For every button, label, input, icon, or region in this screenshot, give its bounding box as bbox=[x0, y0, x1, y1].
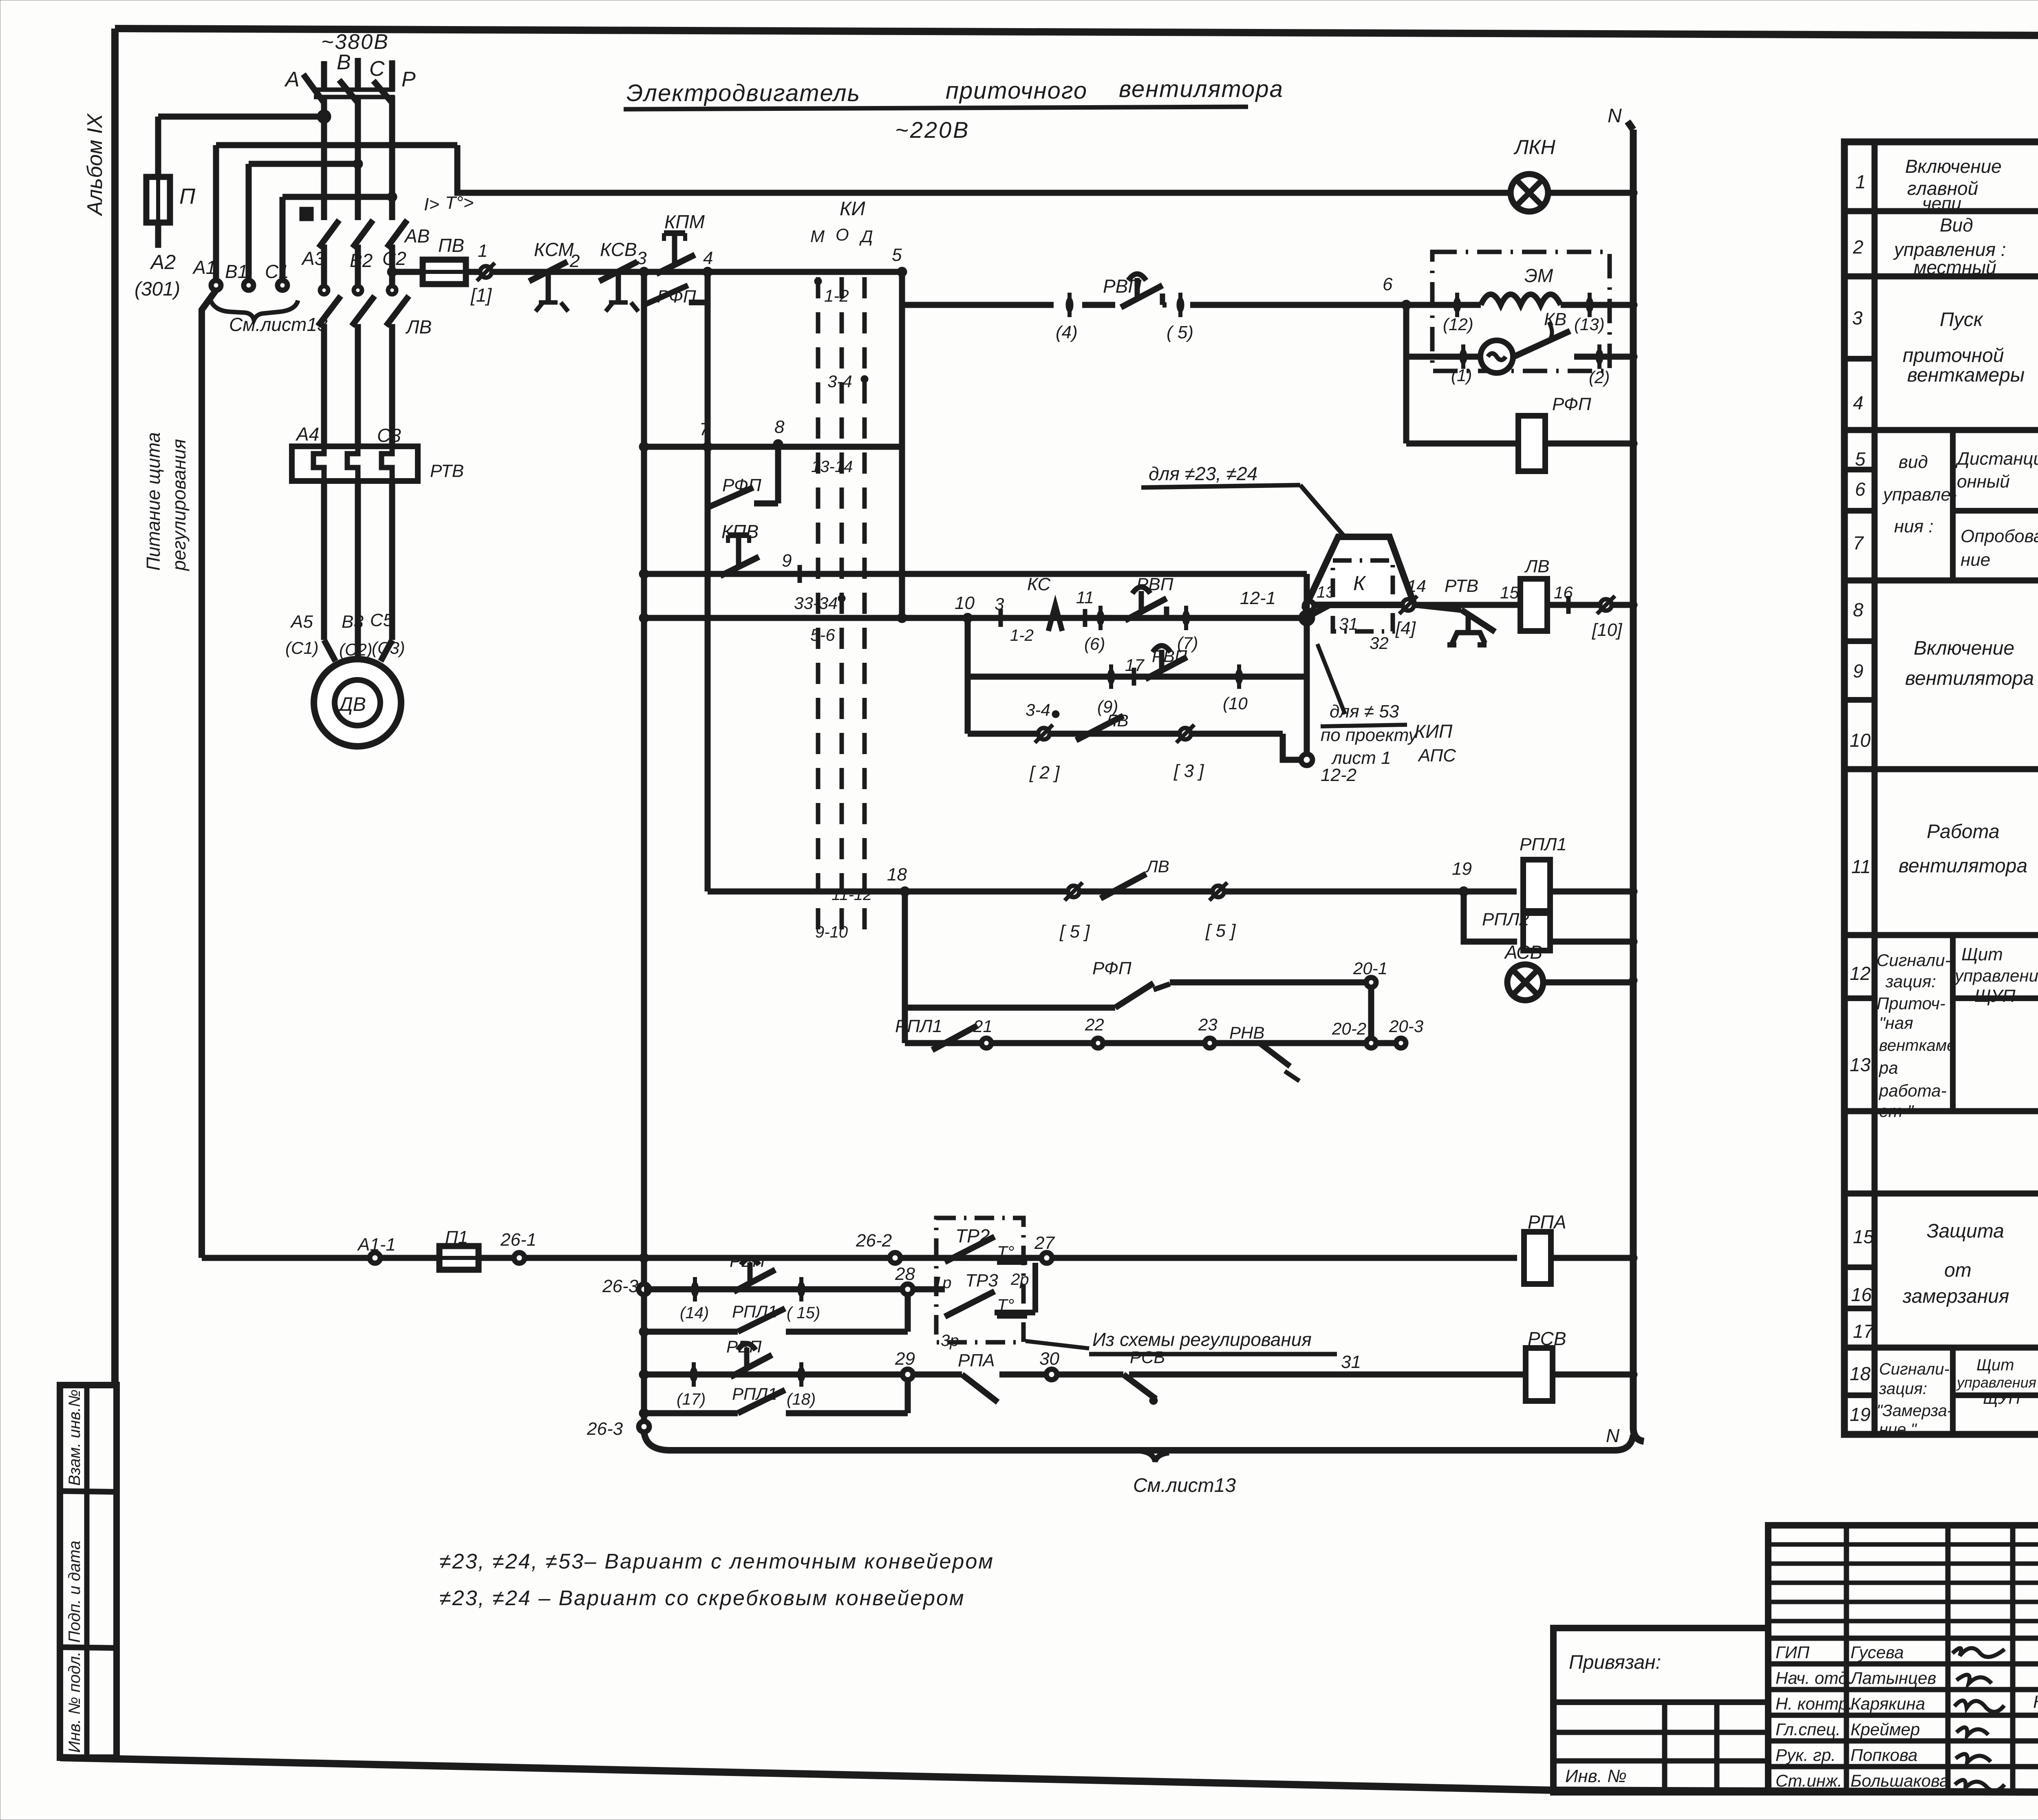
table row line bbox=[1844, 1191, 2038, 1197]
svg-text:С3: С3 bbox=[377, 425, 401, 446]
svg-text:~380В: ~380В bbox=[321, 30, 389, 54]
node 20-2 bbox=[1366, 1038, 1376, 1048]
svg-text:РПА: РПА bbox=[958, 1350, 995, 1370]
svg-text:18: 18 bbox=[887, 865, 907, 885]
svg-text:26-3: 26-3 bbox=[602, 1276, 639, 1296]
svg-text:21: 21 bbox=[973, 1017, 993, 1036]
terminal (13) bbox=[1586, 293, 1593, 317]
svg-text:17: 17 bbox=[1853, 1321, 1875, 1342]
svg-text:В1: В1 bbox=[225, 261, 248, 282]
junction bus row H bbox=[639, 1253, 649, 1263]
КИ dashed line М bbox=[816, 277, 820, 942]
svg-text:РТВ: РТВ bbox=[1445, 576, 1478, 596]
table numcol line bbox=[1844, 1264, 1875, 1270]
svg-text:Включение: Включение bbox=[1905, 156, 2002, 177]
svg-text:ЛКН: ЛКН bbox=[1513, 136, 1556, 159]
svg-text:А2: А2 bbox=[150, 251, 176, 274]
svg-text:3: 3 bbox=[637, 248, 647, 268]
svg-text:АСВ: АСВ bbox=[1504, 942, 1542, 963]
staff row line bbox=[1768, 1661, 2038, 1667]
breaker AB pole B bbox=[353, 212, 373, 285]
riser node10 bbox=[965, 618, 971, 734]
disconnect switch blade B bbox=[339, 80, 358, 103]
svg-text:20-2: 20-2 bbox=[1332, 1019, 1366, 1038]
vertical 12-1 to 12-2 bbox=[1304, 574, 1310, 760]
wire РВП row bbox=[902, 302, 1054, 308]
svg-text:≠23, ≠24, ≠53– Вариант: ≠23, ≠24, ≠53– Вариант с ленточным конве… bbox=[439, 1550, 994, 1573]
svg-text:В: В bbox=[337, 51, 351, 74]
node 5 bbox=[897, 267, 907, 277]
connector Λ bbox=[1048, 605, 1062, 631]
svg-text:для ≠23, ≠24: для ≠23, ≠24 bbox=[1149, 463, 1257, 484]
svg-text:15: 15 bbox=[1853, 1226, 1874, 1247]
svg-text:зация:: зация: bbox=[1879, 1380, 1927, 1398]
contact РВП NC row C bbox=[1145, 646, 1187, 679]
svg-text:3-4: 3-4 bbox=[1026, 700, 1050, 719]
node 26-2 bbox=[890, 1253, 900, 1263]
svg-text:18: 18 bbox=[1850, 1363, 1871, 1384]
svg-text:РСВ: РСВ bbox=[1130, 1348, 1165, 1367]
control circuit feed from C2 bbox=[387, 267, 397, 277]
svg-text:РВП: РВП bbox=[1103, 276, 1142, 297]
wire phase C vertical bbox=[389, 95, 395, 212]
node 28 bbox=[902, 1284, 913, 1295]
left attribute box column bbox=[60, 1385, 117, 1758]
svg-text:Инв. № подл.: Инв. № подл. bbox=[66, 1652, 84, 1753]
node 20-1 bbox=[1366, 977, 1376, 987]
svg-text:лист 1: лист 1 bbox=[1331, 748, 1391, 768]
svg-text:2: 2 bbox=[1853, 236, 1864, 258]
svg-text:КС: КС bbox=[1027, 574, 1051, 594]
table row line bbox=[1844, 427, 2038, 433]
svg-text:9: 9 bbox=[782, 551, 792, 571]
svg-text:ДВ: ДВ bbox=[337, 694, 366, 715]
svg-text:Карякина: Карякина bbox=[1851, 1694, 1925, 1713]
svg-text:10: 10 bbox=[955, 593, 975, 613]
relay coil РФП bbox=[1518, 416, 1545, 471]
svg-text:[10]: [10] bbox=[1592, 620, 1623, 640]
node 23 bbox=[1205, 1038, 1215, 1048]
svg-text:С2: С2 bbox=[382, 248, 406, 269]
svg-text:[4]: [4] bbox=[1395, 618, 1416, 638]
svg-text:регулирования: регулирования bbox=[168, 439, 190, 571]
table subcolumn dividers bbox=[1950, 430, 1956, 580]
svg-text:Пуск: Пуск bbox=[1940, 309, 1984, 331]
fuse П (vertical) bbox=[146, 177, 170, 223]
contact РВП NC row B bbox=[1125, 587, 1167, 620]
svg-text:РФП: РФП bbox=[722, 475, 761, 495]
contactor ЛВ pole A bbox=[318, 286, 341, 446]
node А1-1 bbox=[370, 1253, 380, 1263]
svg-text:Н. контр.: Н. контр. bbox=[1776, 1694, 1853, 1713]
svg-text:3: 3 bbox=[1852, 307, 1863, 329]
svg-text:ПВ: ПВ bbox=[438, 235, 464, 256]
wire phase B lead bbox=[355, 58, 361, 92]
РПЛ2 branch bbox=[1464, 891, 1517, 942]
revision row line bbox=[1768, 1562, 2038, 1566]
wire ТР3 to 27 bbox=[1032, 1263, 1038, 1313]
table numcol line bbox=[1844, 467, 1875, 472]
relay coil РПЛ1 bbox=[1523, 860, 1550, 911]
svg-text:КСМ: КСМ bbox=[534, 239, 574, 260]
svg-text:по проекту: по проекту bbox=[1321, 725, 1418, 745]
svg-text:[ 5 ]: [ 5 ] bbox=[1059, 922, 1090, 942]
svg-text:(12): (12) bbox=[1443, 315, 1473, 334]
svg-text:9: 9 bbox=[1853, 660, 1864, 682]
svg-text:4: 4 bbox=[703, 248, 713, 268]
svg-text:вентилятора: вентилятора bbox=[1899, 855, 2027, 877]
svg-text:N: N bbox=[1608, 105, 1622, 127]
svg-text:( 5): ( 5) bbox=[1167, 322, 1193, 342]
svg-text:6: 6 bbox=[1383, 274, 1393, 294]
svg-text:(17): (17) bbox=[677, 1390, 706, 1408]
svg-text:П1: П1 bbox=[445, 1227, 468, 1247]
svg-text:Щит: Щит bbox=[1976, 1356, 2014, 1374]
svg-text:КИ: КИ bbox=[840, 198, 865, 220]
table row line bbox=[1844, 1432, 2038, 1438]
svg-text:5-6: 5-6 bbox=[810, 625, 835, 644]
svg-text:22: 22 bbox=[1085, 1015, 1104, 1034]
contact КСВ bbox=[599, 262, 638, 311]
fuse P wire bbox=[155, 117, 161, 177]
terminal (18) bbox=[798, 1362, 805, 1387]
svg-text:РВП: РВП bbox=[726, 1337, 762, 1356]
РФП bypass contact around КПМ bbox=[644, 272, 708, 305]
pushbutton КПВ bbox=[720, 535, 759, 576]
table numcol line bbox=[1844, 508, 1875, 514]
svg-text:Работа: Работа bbox=[1927, 821, 2000, 843]
svg-text:31: 31 bbox=[1339, 614, 1358, 633]
contact КСМ bbox=[529, 262, 568, 311]
svg-text:3-4: 3-4 bbox=[827, 372, 852, 391]
svg-text:26-3: 26-3 bbox=[587, 1419, 623, 1439]
svg-text:Приточ-: Приточ- bbox=[1877, 994, 1945, 1013]
svg-text:ния :: ния : bbox=[1894, 516, 1934, 536]
svg-text:20-3: 20-3 bbox=[1389, 1017, 1423, 1036]
sheet frame left border bbox=[111, 29, 119, 1385]
svg-text:~220В: ~220В bbox=[895, 117, 970, 143]
svg-text:26-1: 26-1 bbox=[500, 1230, 536, 1250]
svg-text:"ная: "ная bbox=[1879, 1013, 1913, 1032]
terminal [1] bbox=[477, 263, 495, 281]
title block revision/staff table bbox=[1768, 1525, 2038, 1792]
svg-text:27: 27 bbox=[1034, 1233, 1055, 1253]
feed wire to regulator panel (A1-1 bus) bbox=[202, 290, 216, 1258]
svg-text:Т°>: Т°> bbox=[445, 193, 474, 213]
svg-text:13: 13 bbox=[1317, 583, 1335, 601]
contact РПЛ1 bypass I bbox=[738, 1308, 785, 1332]
contact РВП row I bbox=[734, 1258, 775, 1292]
contact КВ bbox=[1514, 331, 1570, 357]
svg-text:[1]: [1] bbox=[470, 285, 492, 306]
node 18 bbox=[900, 887, 910, 896]
svg-text:чепи: чепи bbox=[1922, 194, 1961, 214]
svg-text:ГИП: ГИП bbox=[1776, 1643, 1810, 1662]
contact ТР3 bbox=[945, 1291, 995, 1317]
svg-text:ЛВ: ЛВ bbox=[405, 316, 432, 338]
svg-text:С: С bbox=[369, 57, 385, 81]
stub A1 bbox=[213, 145, 219, 280]
svg-text:Ст.инж.: Ст.инж. bbox=[1776, 1771, 1842, 1790]
node 27 bbox=[1041, 1253, 1052, 1263]
svg-text:Защита: Защита bbox=[1927, 1220, 2004, 1242]
svg-text:Щит: Щит bbox=[1961, 944, 2003, 964]
svg-text:КВ: КВ bbox=[1544, 309, 1566, 329]
title verticals bbox=[1844, 1525, 1849, 1792]
sheet frame bottom border bbox=[60, 1758, 2038, 1794]
table line under ЩУП 18 bbox=[1953, 1392, 2038, 1398]
table row line bbox=[1844, 766, 2038, 772]
svg-text:Сигнали-: Сигнали- bbox=[1877, 951, 1950, 970]
svg-text:С1: С1 bbox=[265, 261, 289, 282]
svg-text:РТВ: РТВ bbox=[430, 461, 464, 481]
fuse П1 bbox=[439, 1246, 479, 1270]
stub B1 bbox=[246, 164, 252, 280]
svg-text:венткамеры: венткамеры bbox=[1907, 364, 2025, 386]
svg-text:КИП: КИП bbox=[1414, 721, 1453, 742]
bottom rail to N bbox=[644, 1432, 1633, 1450]
svg-text:(4): (4) bbox=[1056, 322, 1078, 342]
svg-text:вентилятора: вентилятора bbox=[1905, 668, 2034, 689]
svg-text:12: 12 bbox=[1850, 963, 1870, 984]
svg-text:[ 2 ]: [ 2 ] bbox=[1029, 763, 1060, 783]
svg-text:управле-: управле- bbox=[1882, 485, 1957, 505]
svg-text:РПЛ1: РПЛ1 bbox=[895, 1016, 942, 1036]
terminal (17) bbox=[690, 1362, 697, 1387]
coil ЭМ inductor bbox=[1406, 302, 1481, 308]
svg-text:К: К bbox=[1353, 572, 1366, 595]
svg-text:РПЛ1: РПЛ1 bbox=[732, 1302, 777, 1321]
svg-text:11: 11 bbox=[1851, 856, 1871, 877]
contact РНВ bbox=[1259, 1043, 1299, 1081]
terminal [10] bbox=[1597, 596, 1615, 614]
svg-text:В2: В2 bbox=[350, 250, 373, 271]
svg-text:N: N bbox=[1606, 1425, 1620, 1446]
wire phase C lead bbox=[389, 60, 395, 92]
svg-text:РПЛ1: РПЛ1 bbox=[732, 1384, 777, 1403]
terminal 14 bbox=[1399, 596, 1417, 614]
junction phase B bbox=[353, 159, 363, 169]
terminal (7) bbox=[1182, 606, 1190, 630]
wire lamp feed bbox=[457, 145, 1511, 193]
svg-text:РПЛ1: РПЛ1 bbox=[1520, 834, 1567, 854]
svg-text:А3: А3 bbox=[301, 248, 325, 269]
wire row J bypass РПЛ1 bbox=[644, 1410, 738, 1416]
svg-text:5: 5 bbox=[1855, 448, 1866, 470]
breaker AB pole C bbox=[387, 212, 407, 285]
contact РПА row B bbox=[1312, 598, 1343, 615]
fuse ПВ bbox=[423, 260, 466, 284]
svg-text:4: 4 bbox=[1853, 392, 1864, 413]
svg-text:ЭМ: ЭМ bbox=[1524, 265, 1553, 286]
svg-text:Опробова-: Опробова- bbox=[1961, 526, 2038, 546]
signatures scribbles bbox=[1952, 1648, 2005, 1791]
svg-text:РВП: РВП bbox=[1136, 574, 1173, 594]
node 19 bbox=[1459, 887, 1469, 896]
svg-text:П: П bbox=[179, 184, 196, 209]
svg-text:13: 13 bbox=[1850, 1054, 1871, 1075]
svg-text:Взам. инв.№: Взам. инв.№ bbox=[66, 1390, 84, 1486]
svg-text:10: 10 bbox=[1850, 730, 1871, 751]
РФП coil row bbox=[1406, 441, 1517, 447]
svg-text:местный: местный bbox=[1914, 257, 1996, 278]
lamp АСВ bbox=[1507, 964, 1543, 1000]
svg-text:(1): (1) bbox=[1451, 366, 1472, 385]
svg-text:А5: А5 bbox=[290, 612, 313, 632]
svg-text:ЛВ: ЛВ bbox=[1524, 556, 1550, 576]
svg-text:замерзания: замерзания bbox=[1902, 1286, 2009, 1307]
svg-text:управления: управления bbox=[1956, 1374, 2036, 1391]
svg-text:1: 1 bbox=[1855, 171, 1866, 192]
table number column divider bbox=[1872, 142, 1878, 1434]
svg-text:7: 7 bbox=[1853, 532, 1864, 554]
К device trapezoid bbox=[1306, 537, 1414, 605]
svg-text:венткаме: венткаме bbox=[1879, 1037, 1956, 1054]
svg-text:5: 5 bbox=[892, 245, 902, 265]
contact РПЛ1 bypass J bbox=[738, 1390, 785, 1413]
svg-text:2р: 2р bbox=[1010, 1271, 1029, 1288]
node 26-3 upper bbox=[639, 1284, 649, 1295]
contactor ЛВ pole B bbox=[352, 286, 375, 446]
svg-text:РПЛ2: РПЛ2 bbox=[1482, 909, 1529, 929]
svg-text:Включение: Включение bbox=[1914, 638, 2014, 659]
svg-text:Питание щита: Питание щита bbox=[143, 432, 164, 571]
svg-text:ние: ние bbox=[1961, 550, 1990, 570]
wire phase B vertical bbox=[355, 95, 361, 212]
wire РПЛ1 row 21-23 bbox=[905, 1040, 1396, 1046]
contact РТВ NC with release bbox=[1416, 605, 1508, 645]
contactor ЛВ pole C bbox=[386, 286, 409, 446]
wire to К block bbox=[1341, 602, 1633, 608]
staff row line bbox=[1768, 1636, 2038, 1641]
terminal (10) bbox=[1235, 664, 1243, 689]
contact РПЛ1 signal bbox=[932, 1026, 977, 1050]
svg-text:ЛВ: ЛВ bbox=[1104, 711, 1129, 730]
contact РФП signal bbox=[1115, 983, 1154, 1008]
node 7 bbox=[703, 442, 712, 452]
svg-text:(18): (18) bbox=[787, 1390, 816, 1408]
svg-text:19: 19 bbox=[1850, 1404, 1870, 1425]
svg-text:А: А bbox=[284, 68, 300, 91]
svg-text:РВП: РВП bbox=[730, 1251, 765, 1271]
svg-text:7: 7 bbox=[699, 419, 710, 439]
svg-text:1-2: 1-2 bbox=[1010, 627, 1034, 644]
sync source symbol bbox=[1480, 340, 1513, 373]
revision row line bbox=[1768, 1600, 2038, 1604]
Привязан block bbox=[1553, 1628, 1768, 1792]
node 12-2 bbox=[1301, 754, 1312, 766]
sheet frame top border bbox=[115, 29, 2038, 38]
breaker AB pole A bbox=[300, 207, 339, 285]
wire tap to fuse P bbox=[158, 114, 324, 120]
node6 drop bbox=[1403, 305, 1409, 443]
revision row line bbox=[1768, 1619, 2038, 1624]
wire row J РВП (17)(18) 29 bbox=[644, 1372, 908, 1378]
wire tap C1 bbox=[282, 194, 392, 200]
table numcol line bbox=[1844, 1392, 1875, 1398]
wire row 7-8 bbox=[644, 444, 902, 450]
svg-text:РФП: РФП bbox=[1092, 958, 1131, 978]
bus from node 3 down bbox=[641, 272, 647, 1435]
dash-dot box ТР2/ТР3 bbox=[936, 1218, 1023, 1342]
table of circuit functions bbox=[1844, 142, 2038, 1434]
svg-text:23: 23 bbox=[1198, 1015, 1218, 1034]
wire control row bbox=[466, 269, 902, 275]
node 13 bbox=[1304, 601, 1314, 611]
node 26-1 bbox=[514, 1253, 525, 1263]
svg-text:О: О bbox=[836, 225, 849, 244]
svg-text:Сигнали-: Сигнали- bbox=[1879, 1360, 1950, 1378]
terminal (9) bbox=[1107, 664, 1115, 689]
table row line bbox=[1844, 274, 2038, 280]
node 22 bbox=[1093, 1038, 1103, 1048]
svg-text:[ 5 ]: [ 5 ] bbox=[1205, 921, 1236, 941]
node 12-1 bbox=[1301, 612, 1312, 624]
svg-text:Гусева: Гусева bbox=[1851, 1643, 1904, 1662]
svg-text:РФП: РФП bbox=[1552, 394, 1591, 414]
svg-text:16: 16 bbox=[1851, 1284, 1872, 1305]
node 4 bbox=[703, 267, 712, 277]
svg-text:ТР3: ТР3 bbox=[965, 1271, 998, 1291]
КИ dashed line О bbox=[840, 277, 844, 942]
svg-text:приточной: приточной bbox=[1903, 345, 2004, 366]
table row line bbox=[1844, 578, 2038, 584]
svg-text:Вид: Вид bbox=[1940, 214, 1973, 236]
svg-text:Латынцев: Латынцев bbox=[1849, 1668, 1936, 1688]
wire tap A1 bbox=[216, 142, 457, 148]
terminal (2) bbox=[1596, 344, 1603, 369]
wire row Включение вентилятора bbox=[644, 615, 1307, 621]
svg-text:от: от bbox=[1944, 1260, 1972, 1281]
svg-text:(301): (301) bbox=[135, 278, 180, 300]
terminal (5) bbox=[1177, 293, 1184, 317]
РФП holding contact bbox=[708, 447, 778, 507]
svg-text:вид: вид bbox=[1899, 452, 1928, 472]
svg-text:Нач. отд.: Нач. отд. bbox=[1776, 1668, 1853, 1688]
bus from node 4 down bbox=[705, 272, 711, 891]
svg-text:вентилятора: вентилятора bbox=[1119, 76, 1284, 102]
svg-text:РПА: РПА bbox=[1528, 1211, 1566, 1233]
svg-text:1-2: 1-2 bbox=[824, 286, 849, 305]
svg-text:(10: (10 bbox=[1223, 694, 1248, 713]
wire phase A lead bbox=[321, 61, 327, 92]
relay coil РСВ bbox=[1526, 1348, 1553, 1401]
svg-text:( 15): ( 15) bbox=[787, 1304, 820, 1322]
riser node18 down bbox=[902, 891, 908, 1043]
table row line bbox=[1844, 932, 2038, 938]
wire row I РВП (14)(15) 28 bbox=[644, 1286, 908, 1293]
pushbutton КПМ bbox=[656, 233, 695, 274]
svg-text:К̇: К̇ bbox=[2033, 1692, 2038, 1712]
svg-text:Попкова: Попкова bbox=[1851, 1745, 1917, 1765]
contact РВП NC bbox=[1121, 274, 1162, 307]
svg-text:КСВ: КСВ bbox=[600, 239, 637, 260]
svg-text:8: 8 bbox=[1853, 599, 1864, 620]
svg-text:3р: 3р bbox=[941, 1332, 959, 1350]
svg-text:Д: Д bbox=[859, 227, 873, 246]
table numcol line bbox=[1844, 1306, 1875, 1311]
svg-text:Электродвигатель: Электродвигатель bbox=[626, 80, 860, 106]
link 20-1/20-2 bbox=[1368, 987, 1374, 1038]
table numcol line bbox=[1844, 356, 1875, 362]
staff row line bbox=[1768, 1764, 2038, 1769]
svg-text:А1: А1 bbox=[192, 257, 216, 278]
svg-text:12-1: 12-1 bbox=[1240, 588, 1276, 608]
svg-text:работа-: работа- bbox=[1878, 1081, 1947, 1100]
svg-text:ЩУП: ЩУП bbox=[1974, 986, 2016, 1006]
table numcol line bbox=[1844, 697, 1875, 703]
svg-text:9-10: 9-10 bbox=[815, 923, 848, 941]
